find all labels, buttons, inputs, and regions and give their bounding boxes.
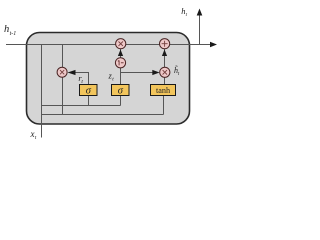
svg-text:h: h bbox=[4, 24, 9, 35]
svg-text:tanh: tanh bbox=[156, 86, 170, 95]
svg-text:σ: σ bbox=[86, 86, 92, 97]
svg-text:t-1: t-1 bbox=[10, 31, 17, 37]
svg-text:σ: σ bbox=[118, 86, 124, 97]
svg-text:t: t bbox=[186, 13, 188, 18]
svg-text:x: x bbox=[30, 129, 35, 139]
svg-text:t: t bbox=[35, 135, 37, 141]
